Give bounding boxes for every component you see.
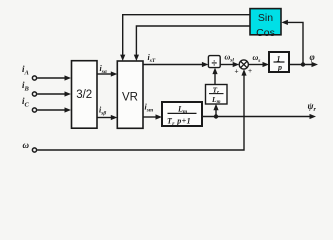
wire sincos to VR line 2 — [134, 26, 250, 61]
wire omega to summing junction — [37, 69, 246, 150]
label omega_s — [253, 53, 261, 64]
junction phi — [301, 62, 305, 66]
wire divider to summing (omega_sl) — [220, 62, 239, 67]
wire psi_r output — [202, 114, 316, 119]
svg-text:Cos: Cos — [256, 27, 275, 39]
label plus left — [235, 69, 239, 76]
label iC — [22, 96, 30, 109]
label omega — [23, 140, 30, 150]
svg-text:VR: VR — [122, 92, 138, 104]
block divider — [208, 56, 220, 70]
svg-text:+: + — [235, 69, 239, 76]
wire iB — [37, 91, 71, 96]
block VR (vector rotator) — [117, 61, 143, 128]
wire integrator output to phi — [289, 62, 318, 67]
label iA — [22, 64, 30, 77]
svg-text:ω: ω — [23, 140, 30, 150]
wire junction up to Tr/Lm block — [213, 104, 218, 117]
wire sincos to VR line 1 — [120, 15, 250, 61]
junction to Tr/Lm — [214, 114, 218, 118]
svg-text:φ: φ — [310, 52, 315, 62]
wire i_salpha — [97, 71, 117, 76]
svg-text:Sin: Sin — [258, 12, 273, 24]
label iB — [22, 80, 30, 93]
label phi — [310, 52, 315, 62]
wire iA — [37, 75, 71, 80]
label psi_r — [308, 101, 317, 113]
block integrator 1/p — [269, 52, 289, 72]
label i_sT — [148, 53, 156, 64]
summing junction — [239, 60, 248, 69]
svg-text:+: + — [248, 68, 252, 75]
svg-text:3/2: 3/2 — [76, 89, 92, 101]
label i_salpha — [100, 64, 108, 75]
wire i_sT from VR to divider — [143, 62, 208, 67]
svg-text:÷: ÷ — [212, 59, 218, 70]
block 3/2 (Clarke transform) — [72, 61, 98, 129]
wire phi feedback to sincos — [281, 20, 303, 65]
label omega_sl — [225, 53, 235, 64]
label plus right — [248, 68, 252, 75]
wire summing to integrator (omega_s) — [248, 62, 269, 67]
svg-text:p: p — [277, 63, 282, 72]
node omega terminal — [32, 148, 36, 152]
wire Tr/Lm up to divider — [212, 68, 217, 85]
block Sin Cos (cyan) — [250, 9, 281, 39]
node iB terminal — [32, 92, 36, 96]
label i_sbeta — [99, 106, 106, 117]
wire i_sm from VR to lag block — [143, 114, 162, 119]
block Lm over (Tr p + 1) — [162, 102, 202, 127]
label i_sm — [145, 103, 154, 114]
node iC terminal — [32, 108, 36, 112]
node iA terminal — [32, 76, 36, 80]
wire i_sbeta — [97, 115, 117, 120]
block Tr over Lm — [206, 85, 228, 106]
svg-text:Tr p+1: Tr p+1 — [167, 117, 191, 128]
wire iC — [37, 107, 71, 112]
